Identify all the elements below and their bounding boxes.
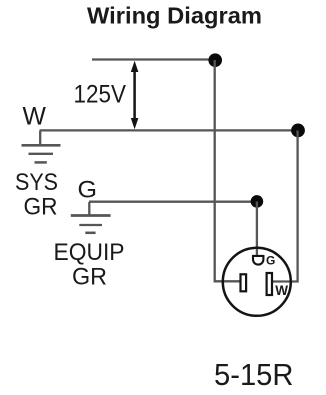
wire: ground drop from junction to receptacle ground slot [256, 202, 258, 257]
wire: top hot supply horizontal segment [92, 58, 215, 60]
svg-text:G: G [78, 177, 98, 204]
wire: hot drop from junction down and into receptacle left slot [215, 60, 241, 281]
svg-text:SYS: SYS [15, 169, 58, 196]
receptacle: outlet face circle [223, 248, 291, 316]
wire: G (equipment ground) horizontal line [89, 201, 257, 203]
receptacle: U-shaped ground slot [253, 256, 263, 265]
svg-text:GR: GR [24, 193, 58, 220]
receptacle: right (neutral) slot [267, 273, 272, 295]
svg-text:125V: 125V [74, 81, 127, 109]
svg-text:5-15R: 5-15R [214, 359, 294, 392]
wire: neutral drop from junction down and into receptacle right slot [271, 131, 298, 282]
svg-text:Wiring Diagram: Wiring Diagram [87, 3, 262, 29]
svg-text:W: W [23, 103, 47, 130]
svg-text:GR: GR [72, 264, 107, 291]
node: junction dot at right end of W line [291, 123, 305, 137]
wire: W (neutral) horizontal line [40, 129, 299, 131]
node: junction dot at right end of G line [251, 195, 264, 208]
svg-text:EQUIP: EQUIP [54, 239, 125, 266]
ground symbol: system ground under W line [22, 131, 61, 162]
receptacle: left (hot) slot [241, 274, 247, 291]
svg-text:G: G [266, 253, 275, 267]
ground symbol: equipment ground under G line [71, 202, 111, 233]
dimension arrow: 125V double-headed arrow [131, 61, 139, 130]
svg-text:W: W [275, 283, 288, 298]
node: junction dot on hot wire [208, 53, 222, 67]
